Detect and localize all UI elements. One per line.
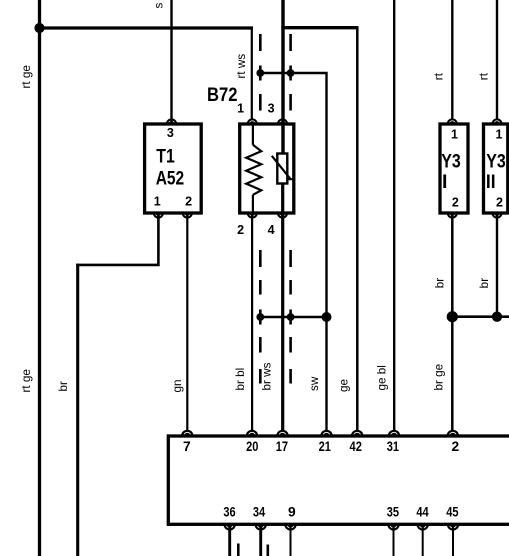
svg-text:br bl: br bl — [234, 368, 247, 391]
svg-text:1: 1 — [496, 128, 503, 142]
svg-text:7: 7 — [183, 439, 191, 454]
svg-text:1: 1 — [154, 194, 161, 208]
svg-text:I: I — [442, 171, 447, 193]
svg-text:A52: A52 — [156, 167, 185, 189]
svg-text:br: br — [478, 278, 491, 289]
svg-text:17: 17 — [276, 439, 289, 454]
svg-text:2: 2 — [451, 439, 459, 454]
svg-text:br: br — [57, 381, 70, 392]
svg-text:rt ge: rt ge — [20, 65, 33, 88]
svg-text:42: 42 — [350, 439, 363, 454]
svg-text:34: 34 — [253, 505, 266, 520]
svg-text:2: 2 — [237, 223, 244, 237]
svg-text:rt: rt — [477, 72, 490, 80]
svg-text:31: 31 — [387, 439, 400, 454]
svg-text:20: 20 — [246, 439, 259, 454]
svg-text:3: 3 — [167, 126, 174, 140]
svg-text:sw: sw — [308, 376, 321, 391]
svg-text:2: 2 — [452, 195, 459, 209]
svg-text:45: 45 — [446, 505, 459, 520]
svg-text:Y3: Y3 — [486, 151, 506, 173]
svg-text:br: br — [434, 278, 447, 289]
svg-text:35: 35 — [387, 505, 400, 520]
svg-text:1: 1 — [451, 128, 458, 142]
svg-text:rt ge: rt ge — [20, 369, 33, 392]
svg-text:B72: B72 — [207, 84, 238, 106]
svg-text:s: s — [153, 3, 166, 9]
svg-text:ge bl: ge bl — [376, 365, 389, 390]
svg-text:br ge: br ge — [433, 364, 446, 391]
svg-text:gn: gn — [171, 379, 184, 392]
svg-text:9: 9 — [288, 505, 296, 520]
svg-text:T1: T1 — [156, 146, 175, 168]
svg-text:44: 44 — [416, 505, 429, 520]
svg-text:21: 21 — [319, 439, 332, 454]
svg-text:2: 2 — [496, 195, 503, 209]
svg-text:36: 36 — [223, 505, 236, 520]
svg-text:Y3: Y3 — [441, 151, 461, 173]
svg-text:rt: rt — [433, 72, 446, 80]
svg-text:ge: ge — [338, 379, 351, 392]
svg-text:II: II — [486, 171, 496, 193]
svg-text:4: 4 — [268, 223, 275, 237]
svg-text:2: 2 — [185, 194, 192, 208]
svg-text:1: 1 — [237, 102, 244, 116]
svg-text:br ws: br ws — [261, 362, 274, 390]
svg-text:3: 3 — [268, 102, 275, 116]
svg-text:rt ws: rt ws — [235, 54, 248, 79]
